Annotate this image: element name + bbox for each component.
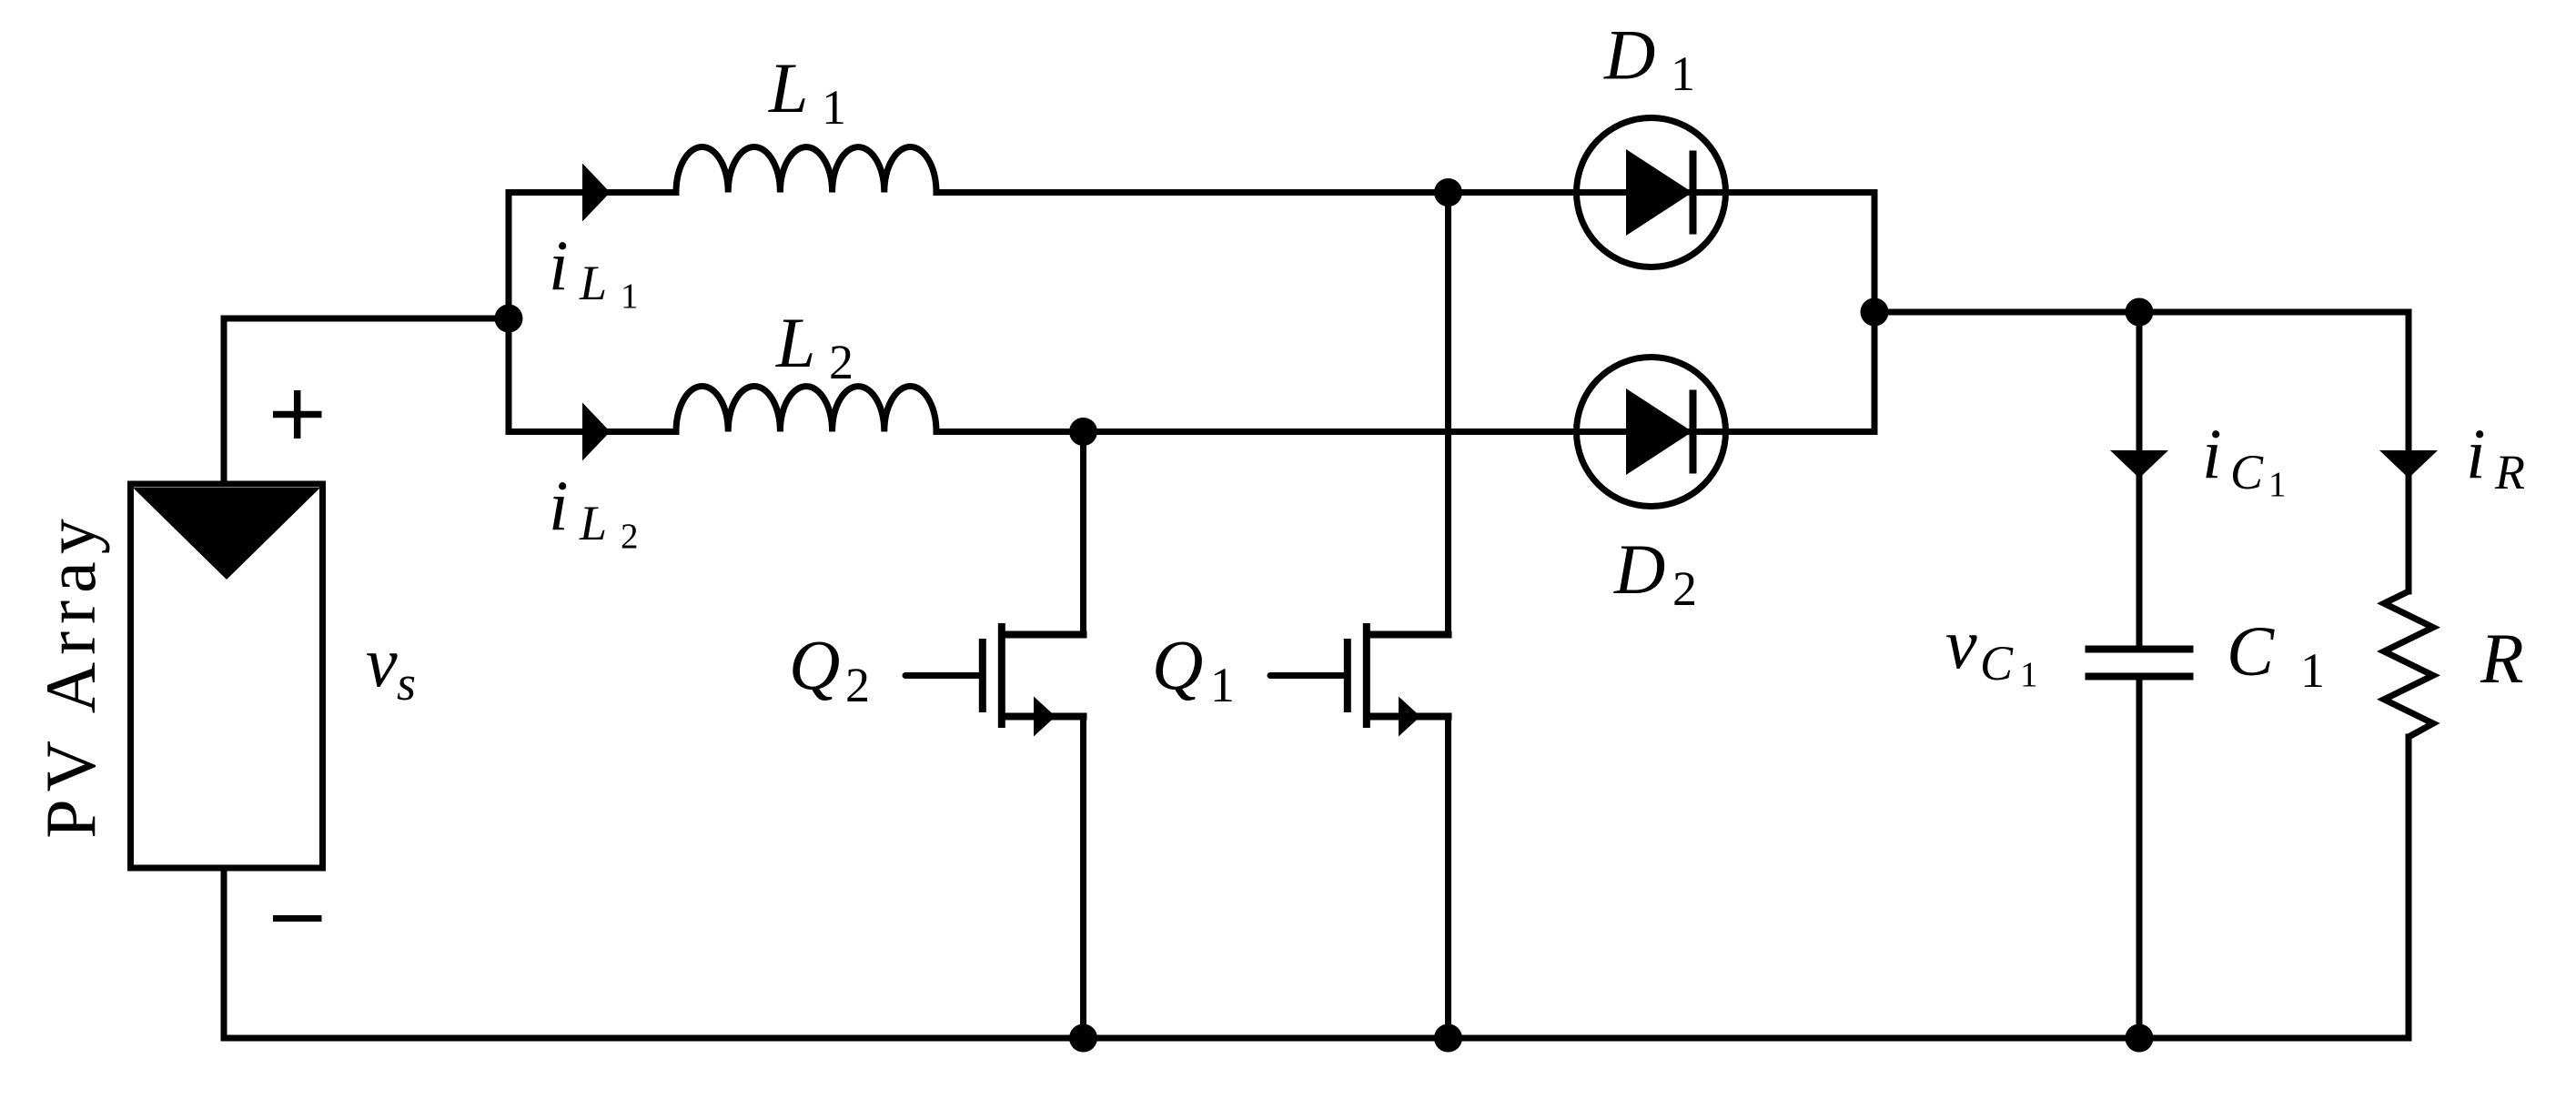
label C1 (2227, 611, 2325, 698)
svg-text:PV Array: PV Array (31, 511, 110, 838)
svg-text:i: i (549, 226, 569, 305)
label L2 (775, 303, 854, 389)
wire capacitor C1 top lead (2137, 312, 2143, 649)
wire input split vertical with L1 and L2 leads (509, 193, 676, 432)
current arrow iR (2379, 450, 2438, 479)
svg-text:i: i (549, 466, 569, 545)
label vC1 (1945, 604, 2038, 694)
svg-text:i: i (2202, 414, 2222, 493)
svg-text:Q: Q (789, 625, 840, 704)
svg-text:i: i (2466, 414, 2486, 493)
svg-text:1: 1 (1671, 46, 1695, 101)
svg-text:2: 2 (845, 658, 870, 712)
PV Array source box (131, 484, 323, 868)
node Q2 source bottom junction (1069, 1024, 1097, 1053)
wire Q2 source vertical (1080, 717, 1086, 1039)
inductor L2 (676, 387, 936, 432)
svg-text:s: s (397, 656, 416, 711)
svg-text:Q: Q (1152, 625, 1203, 704)
svg-text:1: 1 (2300, 643, 2325, 698)
svg-text:L: L (775, 303, 815, 382)
wire Q1 source vertical (1445, 717, 1451, 1039)
svg-text:1: 1 (1210, 658, 1235, 712)
svg-text:C: C (1980, 636, 2014, 691)
svg-text:R: R (2480, 619, 2524, 698)
svg-text:C: C (2230, 445, 2264, 499)
svg-text:D: D (1613, 529, 1665, 609)
wire transistor Q1 drain vertical (1445, 193, 1451, 635)
label L1 (768, 48, 846, 135)
svg-text:1: 1 (621, 277, 639, 316)
inductor L1 (676, 147, 936, 193)
transistor Q2 (905, 623, 1087, 737)
wire capacitor C1 bottom lead (2137, 677, 2143, 1039)
node Q1 source bottom junction (1434, 1024, 1462, 1053)
minus sign (273, 915, 322, 922)
svg-text:L: L (768, 48, 808, 127)
resistor R (2384, 591, 2433, 737)
label D1 (1603, 15, 1695, 102)
current arrow iL1 (582, 164, 611, 222)
label iC1 (2202, 414, 2287, 504)
wire L2 to D2 anode (936, 429, 1874, 435)
node input junction (495, 305, 523, 333)
svg-text:v: v (366, 622, 398, 701)
current arrow iL2 (582, 403, 611, 461)
node diode output junction (1861, 298, 1889, 327)
label vs (366, 622, 416, 711)
wire bottom return rail (224, 737, 2409, 1038)
svg-text:C: C (2227, 611, 2275, 691)
transistor Q1 (1270, 623, 1452, 737)
svg-text:2: 2 (1672, 561, 1697, 616)
label D2 (1613, 529, 1697, 616)
label iR (2466, 414, 2525, 499)
node L2 to Q2 drain junction (1069, 418, 1097, 446)
svg-text:2: 2 (829, 335, 854, 389)
wire PV positive lead to input node (224, 318, 509, 484)
wire transistor Q2 drain vertical (1080, 432, 1086, 635)
svg-text:L: L (579, 256, 607, 310)
svg-text:1: 1 (822, 80, 846, 135)
node L1 to Q1 drain junction (1434, 178, 1462, 207)
svg-text:2: 2 (621, 517, 639, 556)
current arrow iC1 (2110, 450, 2168, 479)
label Q1 (1152, 625, 1235, 712)
node capacitor bottom junction (2126, 1024, 2154, 1053)
svg-text:D: D (1603, 15, 1655, 95)
svg-text:v: v (1945, 604, 1977, 683)
label Q2 (789, 625, 870, 712)
wire L1 to D1 anode and diode output right leg (936, 193, 1874, 432)
plus sign (273, 390, 322, 439)
svg-text:R: R (2494, 445, 2525, 499)
node capacitor top junction (2126, 298, 2154, 327)
label iL1 (549, 226, 639, 316)
diode D2 (1577, 358, 1726, 507)
wire output node to load (1874, 312, 2409, 591)
label iL2 (549, 466, 639, 556)
svg-text:L: L (579, 496, 607, 550)
diode D1 (1577, 118, 1726, 267)
capacitor C1 (2086, 650, 2194, 677)
svg-text:1: 1 (2268, 465, 2287, 504)
svg-text:1: 1 (2020, 655, 2038, 694)
